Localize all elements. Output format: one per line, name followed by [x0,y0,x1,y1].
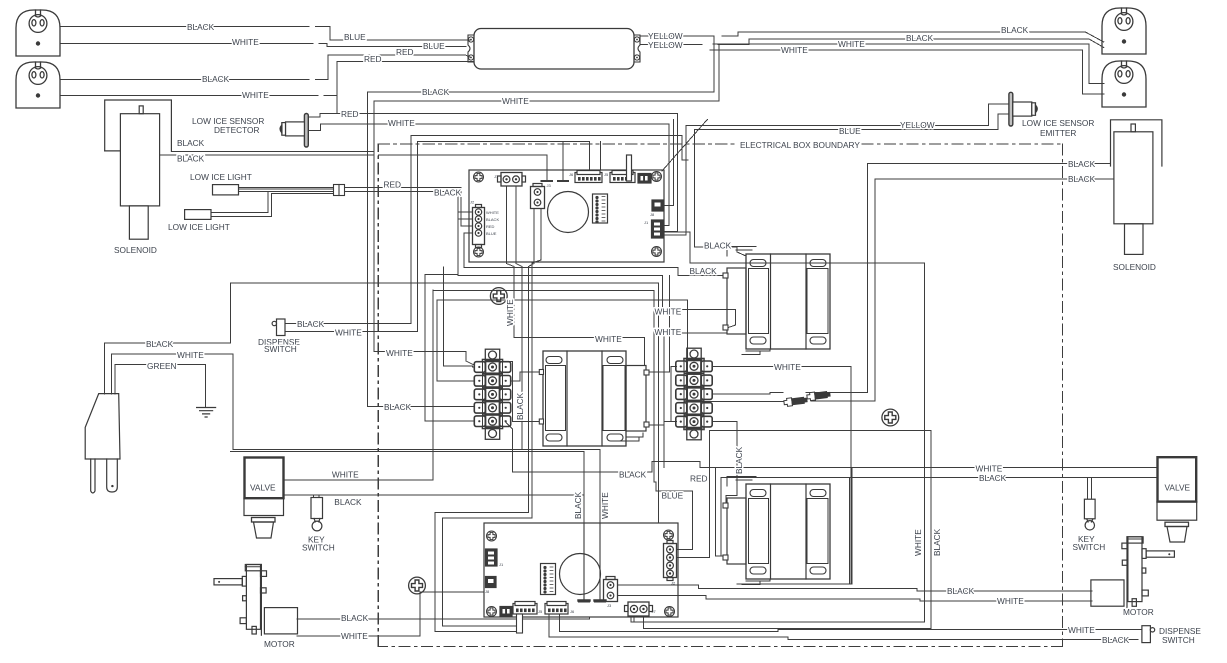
svg-text:WHITE: WHITE [655,307,682,317]
svg-text:BLACK: BLACK [704,241,732,251]
wire pcb2 j6 to dispense2 white [559,614,1142,632]
wire strip1 row5 right to transformer3 box [505,421,715,472]
J5 connector [513,602,543,615]
svg-text:WHITE: WHITE [913,529,923,556]
J3 dual vertical [604,577,618,609]
J7 dual screw terminal [625,602,657,616]
wire ballast wrap black down-left [368,36,714,406]
wire pcb2 j6 to dispense2 black [549,614,1138,640]
wire dispense1 white [285,331,417,333]
wire transformer1 nub1 riser [650,276,669,372]
svg-text:BLACK: BLACK [1068,159,1096,169]
wire solenoid2 black 2 [811,179,1114,401]
wire dispense1 black [285,322,411,324]
wire j3 drops to transformer [435,209,534,632]
wire strip1 tab to transformer left nub lower [501,362,540,422]
wire pcb2 J7 screw2 long loop [644,430,931,628]
wire low ice light 1 leads [239,188,334,192]
valve 2 [1157,457,1197,542]
svg-text:WHITE: WHITE [486,210,499,215]
svg-text:BLACK: BLACK [690,266,718,276]
wire fuse B left to riser [437,300,783,402]
wire ballast yellow 2 run [641,39,1104,48]
svg-text:BLACK: BLACK [932,528,942,556]
svg-text:BLACK: BLACK [906,33,934,43]
wire mesh y274 from x424.8 right [425,273,458,275]
wire bundle to strip1 row2 [443,267,474,367]
wire black label to strip1 row4 [368,406,474,408]
svg-text:BLUE: BLUE [662,490,684,500]
wire keyswitch1 drop [314,495,320,497]
svg-text:WHITE: WHITE [332,469,359,479]
svg-text:WHITE: WHITE [177,350,204,360]
svg-text:RED: RED [384,179,402,189]
svg-text:GREEN: GREEN [147,361,177,371]
svg-text:WHITE: WHITE [655,327,682,337]
lamp socket top-left 1 [16,10,60,56]
wire pcb1 wrap B dispense white [417,142,589,332]
J6 connector [569,171,602,183]
wire inline connector to J2 red [345,188,473,226]
svg-text:RED: RED [341,109,359,119]
svg-text:BLACK: BLACK [573,491,583,519]
wire valve1 white [284,479,434,481]
lamp socket top-left 2 [16,62,60,108]
wire J2 pin4 blue down to relay2 black2 [464,233,723,276]
electrical box boundary dashed [378,144,1062,646]
svg-text:SOLENOID: SOLENOID [1113,262,1156,272]
wire strip2 row1 white right to valve2 riser [713,366,852,584]
wire relay2 white2 to transformer1 nub2 [650,333,727,425]
svg-text:LOW ICE LIGHT: LOW ICE LIGHT [190,172,252,182]
svg-text:WHITE: WHITE [595,334,622,344]
svg-text:WHITE: WHITE [232,37,259,47]
wire pcb2 j7 screw1 to riser [633,616,635,622]
wire second tbar riser [562,142,564,180]
J8 black [485,577,496,595]
J1 black 3pin [644,220,663,238]
svg-text:MOTOR: MOTOR [264,639,295,649]
wire fuse A to strip2 row3 [713,393,783,394]
svg-text:BLACK: BLACK [486,217,499,222]
wire white run to socket4 upper [713,44,1104,84]
transformer 2 (relay upper right) [723,247,830,355]
low ice sensor detector [280,114,308,148]
wire solenoid1 black upper [171,150,373,152]
wire valve1 black keyswitch1 [284,494,585,496]
wire x437 to strip1 row2 [437,300,474,381]
DIP switch [541,564,556,595]
J5 connector [604,171,635,183]
terminal strip 1 [474,349,510,439]
terminal strip 2 [676,348,712,440]
svg-text:WHITE: WHITE [781,45,808,55]
inline connector on red wire [334,185,345,196]
wire plug green to ground [115,365,205,408]
svg-text:BLACK: BLACK [334,497,362,507]
svg-text:WHITE: WHITE [502,96,529,106]
K1 [500,607,512,617]
wire box bottom 2 to tbar [231,452,585,523]
wire plug white [112,354,233,394]
wire plug black [104,343,230,394]
svg-text:BLACK: BLACK [1068,174,1096,184]
J3 dual terminal vertical [531,183,552,209]
wire pcb2 J3 to motor2 black [618,585,1093,591]
J2 connector 4pin right [664,541,677,586]
transformer 1 center [543,351,649,446]
svg-text:BLUE: BLUE [486,231,497,236]
solenoid right [1111,120,1162,255]
transformer1 left terminals [539,370,543,425]
svg-text:WHITE: WHITE [976,464,1003,474]
svg-text:BLACK: BLACK [146,339,174,349]
svg-text:EMITTER: EMITTER [1040,128,1076,138]
panel screws [490,288,507,305]
lamp socket top-right 1 [1102,8,1146,54]
motor 1 [214,565,298,636]
wire transformer3 box inner red [721,477,1158,584]
svg-text:SWITCH: SWITCH [1162,635,1195,645]
svg-text:WHITE: WHITE [838,39,865,49]
wire motor1 white [297,592,484,636]
dispense switch 1 [272,319,285,336]
wire solenoid1 black lower long [160,155,547,180]
svg-text:BLACK: BLACK [734,446,744,474]
power plug [85,394,120,493]
wire pcb1 wrap A dispense black [411,135,688,323]
wire socket2 white / red riser [60,94,337,96]
transformer 3 (lower right) [723,477,830,585]
svg-text:WHITE: WHITE [341,631,368,641]
svg-text:RED: RED [364,54,382,64]
svg-text:VALVE: VALVE [250,483,276,493]
svg-text:SWITCH: SWITCH [264,344,297,354]
wire j6 second pin drop [600,142,602,170]
wire pcb1 J1 long right run down [631,232,925,622]
PCB 2 [484,523,678,633]
svg-text:BLACK: BLACK [1102,635,1130,645]
wire strip1 row2 to transformer left nub upper [511,372,540,381]
J2 connector 4pin [470,200,499,248]
key switch 1 [311,498,323,531]
svg-text:BLACK: BLACK [979,473,1007,483]
PCB 1 [469,155,664,262]
J1 black 3pin [486,549,505,567]
svg-text:BLACK: BLACK [297,319,325,329]
ballast [468,29,640,70]
dispense switch 2 [1142,626,1155,643]
svg-text:LOW ICE LIGHT: LOW ICE LIGHT [168,222,230,232]
buzzer [560,554,601,595]
svg-text:BLACK: BLACK [384,402,412,412]
wire strip2 row5 to transformer3 nub [713,422,738,506]
wire j7 screw2 down [516,186,522,449]
wire solenoid2 black 1 [806,163,1111,392]
wire socket1 black to ballast blue [60,27,471,41]
svg-text:BLACK: BLACK [515,392,525,420]
svg-text:SOLENOID: SOLENOID [114,245,157,255]
wire big box: plug black up over to relay2 [231,283,659,523]
svg-text:BLUE: BLUE [344,32,366,42]
svg-text:WHITE: WHITE [600,492,610,519]
svg-text:BLACK: BLACK [187,22,215,32]
DIP switch S1 [593,194,608,223]
wire socket2 black / red to ballast [60,55,471,80]
svg-text:BLACK: BLACK [341,613,369,623]
svg-text:BLACK: BLACK [202,74,230,84]
wire low ice light 2 leads [211,192,334,217]
wire pcb1 J8 right [663,119,674,205]
motor 2 [1091,537,1175,608]
svg-text:BLACK: BLACK [619,470,647,480]
wire detector red right [308,114,678,232]
svg-text:WHITE: WHITE [1068,625,1095,635]
wire white run to socket4 lower [710,50,1104,94]
wire light black to J2 [345,192,473,219]
svg-text:BLACK: BLACK [1001,25,1029,35]
wire bundle x433 down [432,290,434,479]
svg-text:WHITE: WHITE [242,90,269,100]
wire motor1 black [297,617,590,619]
solenoid left [105,100,172,239]
svg-text:BLACK: BLACK [947,586,975,596]
standing cap component [627,155,632,181]
svg-text:WHITE: WHITE [386,348,413,358]
buzzer circle [548,192,589,233]
svg-text:WHITE: WHITE [997,596,1024,606]
svg-text:BLACK: BLACK [434,188,462,198]
low ice sensor emitter [1009,92,1037,126]
wire J2 pin1 white down [458,212,736,328]
wire emitter yellow upper run [664,104,1009,235]
wire ballast yellow 1 to top-right black run [641,32,1104,42]
svg-text:SWITCH: SWITCH [1073,542,1106,552]
svg-text:WHITE: WHITE [388,118,415,128]
wire pcb2 J3 to motor2 white [618,596,1093,602]
svg-text:BLACK: BLACK [177,154,205,164]
wire detector white right [308,124,669,226]
svg-text:SWITCH: SWITCH [302,543,335,553]
wire jumper down to box top [664,422,671,468]
K1 relay black [638,174,651,184]
wire emitter lower run to relay2 black1 [695,114,1009,256]
wire socket1 white to ballast blue [60,44,466,47]
svg-text:BLACK: BLACK [422,87,450,97]
wire motor2 vertical labels run [919,598,921,600]
svg-text:YELLOW: YELLOW [648,40,683,50]
wire mesh vertical x424.8 to strip1 row5 [425,274,474,421]
svg-text:RED: RED [396,47,414,57]
svg-text:YELLOW: YELLOW [900,120,935,130]
svg-text:RED: RED [486,224,495,229]
wire big box white bottom [233,354,600,523]
key switch 2 [1084,499,1095,530]
svg-text:WHITE: WHITE [774,362,801,372]
J5 ribbon below [517,614,523,633]
wire keyswitch2 drop [1087,477,1091,499]
lamp socket top-right 2 [1102,61,1146,107]
fuse inline connectors [784,390,831,406]
svg-text:DETECTOR: DETECTOR [214,125,259,135]
diagonal wire to pcb1 corner [662,119,708,171]
J6 connector [545,602,575,615]
svg-text:WHITE: WHITE [335,328,362,338]
svg-text:MOTOR: MOTOR [1123,607,1154,617]
wire mesh y290 to strip2 tab [433,290,692,549]
wire ballast wrap white down-left [374,44,719,352]
low ice light 1 [213,185,239,195]
svg-text:LOW ICE SENSOR: LOW ICE SENSOR [1022,118,1094,128]
wire relay2 to strip2 short [713,275,724,277]
svg-text:BLUE: BLUE [423,41,445,51]
wire ballast-white branch to strip1 row1 [374,352,474,367]
svg-text:ELECTRICAL BOX BOUNDARY: ELECTRICAL BOX BOUNDARY [740,140,860,150]
svg-text:RED: RED [690,474,708,484]
J7 dual screw terminal [494,173,526,187]
J8 black [650,200,663,217]
wire transformer3 box outer [715,467,1157,584]
valve 1 [244,458,284,539]
svg-text:VALVE: VALVE [1165,483,1191,493]
test point T bars [579,523,590,602]
wire j7 screw1 white down to label [507,186,645,365]
low ice light 2 [185,210,211,220]
svg-text:WHITE: WHITE [505,299,515,326]
wire strip2 row1-row5 jumper [671,367,676,422]
svg-text:BLUE: BLUE [839,126,861,136]
svg-text:BLACK: BLACK [177,138,205,148]
ground symbol [197,408,216,418]
